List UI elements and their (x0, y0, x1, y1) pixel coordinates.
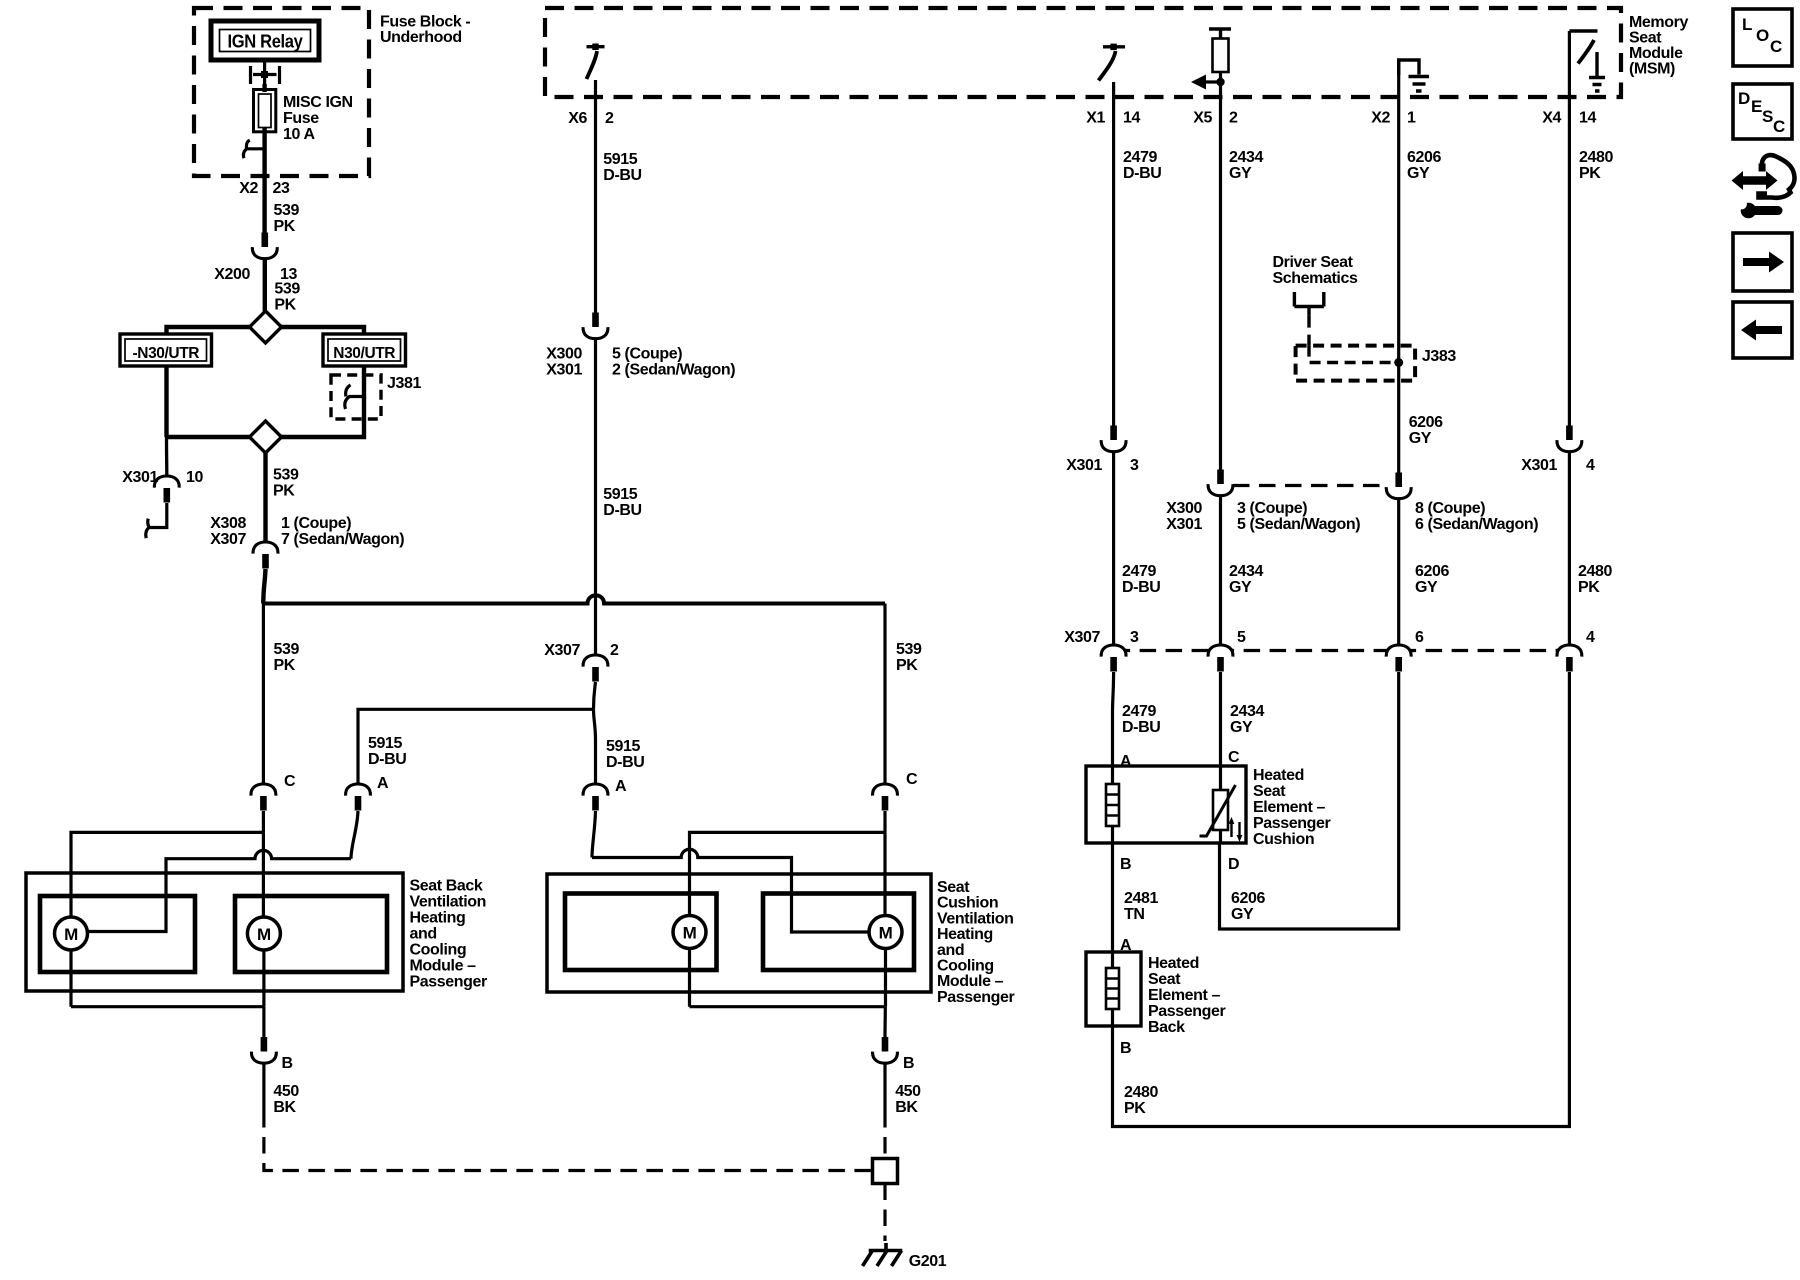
svg-text:X4: X4 (1542, 110, 1561, 127)
svg-text:BK: BK (895, 1099, 918, 1116)
svg-text:Module: Module (1629, 45, 1683, 62)
wire 2480 PK return (1113, 672, 1570, 1127)
wire X1-14 2479 D-BU (1112, 82, 1115, 427)
right module inner box 2 (763, 894, 914, 971)
svg-text:B: B (282, 1055, 293, 1072)
wire to X301-10 (165, 437, 169, 476)
svg-text:2 (Sedan/Wagon): 2 (Sedan/Wagon) (612, 362, 735, 379)
wire through back element (1111, 952, 1114, 1026)
svg-text:M: M (683, 924, 697, 943)
connector X300/X301 pin 8/6 (1386, 473, 1411, 499)
svg-text:BK: BK (273, 1099, 296, 1116)
svg-text:Passenger: Passenger (1253, 815, 1331, 832)
svg-text:3 (Coupe): 3 (Coupe) (1237, 500, 1307, 517)
wire X6-2 5915 D-BU (594, 80, 597, 314)
wire 450 BK (262, 1064, 265, 1111)
svg-text:PK: PK (274, 297, 296, 314)
motor M right (247, 917, 280, 950)
svg-text:Seat: Seat (937, 879, 970, 896)
pin labels B D (1120, 856, 1239, 873)
motor M left (55, 917, 88, 950)
Driver Seat Schematics reference (1273, 254, 1358, 287)
svg-text:D: D (1738, 89, 1750, 108)
svg-text:6206: 6206 (1407, 149, 1441, 166)
wire 2434 GY mid (1219, 497, 1222, 646)
svg-text:GY: GY (1409, 430, 1432, 447)
wire N30/UTR down through J381 (282, 366, 365, 437)
wire -N30/UTR down (164, 366, 168, 437)
wire to N30/UTR (282, 327, 365, 334)
wire X4-14 2480 PK (1568, 31, 1571, 427)
svg-text:Element –: Element – (1148, 987, 1220, 1004)
svg-text:J381: J381 (387, 375, 421, 392)
MSM switch at X6 (587, 45, 605, 48)
svg-text:TN: TN (1124, 906, 1145, 923)
svg-text:10: 10 (186, 469, 203, 486)
wire fuse through switch (262, 84, 266, 176)
heated seat element passenger cushion box (1086, 766, 1246, 843)
heater element bar (back) (1106, 968, 1119, 1009)
motor M left (cushion) (673, 916, 706, 949)
svg-text:Fuse Block -: Fuse Block - (380, 14, 470, 31)
svg-text:2434: 2434 (1229, 149, 1263, 166)
connector A right module (583, 784, 608, 811)
label MISC IGN Fuse 10 A (283, 94, 353, 143)
svg-text:3: 3 (1130, 629, 1139, 646)
svg-text:S: S (1762, 107, 1773, 126)
wire A into module (351, 811, 358, 859)
wire 2434 GY to element C (1219, 672, 1222, 766)
svg-text:10 A: 10 A (283, 126, 315, 143)
label Memory Seat Module (MSM) (1629, 14, 1688, 78)
wire C down into module (883, 811, 886, 832)
wire to -N30/UTR (167, 327, 250, 334)
dashed link X300/X301 row (1233, 484, 1386, 487)
wire C to right motor (883, 832, 886, 915)
svg-text:O: O (1756, 26, 1769, 45)
svg-text:X301: X301 (122, 469, 158, 486)
svg-text:X301: X301 (1066, 457, 1102, 474)
svg-text:GY: GY (1229, 579, 1252, 596)
connector X300/X301 pin 3/5 (1208, 470, 1233, 496)
svg-text:D-BU: D-BU (368, 751, 406, 768)
icon LOC box (1733, 9, 1792, 66)
wire diamond to -N30 branch (167, 435, 250, 439)
fuse holder clips (253, 73, 277, 76)
memory seat module dashed box (545, 8, 1621, 97)
svg-text:2479: 2479 (1123, 149, 1157, 166)
svg-text:C: C (1228, 749, 1240, 766)
svg-text:Ventilation: Ventilation (937, 910, 1014, 927)
left module outer box (26, 873, 403, 991)
svg-text:6: 6 (1415, 629, 1424, 646)
svg-text:X301: X301 (1521, 457, 1557, 474)
svg-text:M: M (64, 925, 78, 944)
svg-text:1: 1 (1407, 110, 1416, 127)
connector X301 pin 4 (1557, 426, 1582, 452)
connector X307 pin 6 (1386, 645, 1411, 672)
svg-text:IGN Relay: IGN Relay (228, 31, 304, 52)
svg-text:Heating: Heating (410, 910, 466, 927)
svg-text:5 (Sedan/Wagon): 5 (Sedan/Wagon) (1237, 516, 1360, 533)
wire 539 PK horizontal distribution with hop over X6 wire (263, 595, 885, 603)
MSM ground at X2 (1399, 60, 1429, 91)
connector B left module (251, 1037, 276, 1063)
wire 5915 down to right module A (594, 709, 596, 784)
jumper J381 dashed box (331, 375, 381, 419)
svg-text:D-BU: D-BU (1122, 579, 1160, 596)
connector X300/X301 pin 5/2 (583, 313, 608, 339)
wire 5915 to junction (594, 682, 596, 709)
dashed ground wire right (883, 1111, 886, 1159)
thermistor (cushion) (1213, 790, 1228, 830)
wire B down (262, 1007, 265, 1038)
svg-text:Cooling: Cooling (937, 958, 994, 975)
svg-text:PK: PK (896, 657, 918, 674)
wire 539 PK (263, 260, 267, 313)
svg-text:2434: 2434 (1230, 703, 1264, 720)
wire 539 PK below S2 (263, 453, 267, 542)
motor M right (cushion) (869, 916, 902, 949)
svg-text:M: M (879, 924, 893, 943)
svg-text:GY: GY (1407, 165, 1430, 182)
svg-text:MISC IGN: MISC IGN (283, 94, 353, 111)
label Heated Seat Element Passenger Cushion (1253, 767, 1331, 848)
svg-text:D-BU: D-BU (1122, 719, 1160, 736)
icon arrow left box (1733, 302, 1792, 358)
svg-text:8 (Coupe): 8 (Coupe) (1415, 500, 1485, 517)
svg-text:Underhood: Underhood (380, 29, 462, 46)
svg-text:5915: 5915 (603, 151, 637, 168)
svg-text:2480: 2480 (1124, 1084, 1158, 1101)
svg-text:Schematics: Schematics (1273, 270, 1358, 287)
pin label B (back) (1120, 1040, 1131, 1057)
MSM driver output at X5 (1209, 29, 1231, 39)
svg-text:2: 2 (1229, 110, 1238, 127)
svg-text:A: A (377, 775, 389, 792)
svg-text:Memory: Memory (1629, 14, 1688, 31)
svg-text:X2: X2 (239, 180, 258, 197)
svg-text:X2: X2 (1371, 110, 1390, 127)
node -N30/UTR box (120, 334, 212, 366)
svg-text:PK: PK (274, 657, 296, 674)
svg-text:B: B (1120, 1040, 1131, 1057)
svg-text:C: C (284, 773, 296, 790)
svg-text:5915: 5915 (606, 738, 640, 755)
svg-text:Seat Back: Seat Back (410, 878, 483, 895)
svg-text:PK: PK (273, 483, 295, 500)
svg-text:3: 3 (1130, 457, 1139, 474)
svg-text:G201: G201 (909, 1253, 947, 1270)
svg-text:Passenger: Passenger (1148, 1003, 1226, 1020)
svg-text:14: 14 (1579, 110, 1596, 127)
svg-text:539: 539 (274, 281, 300, 298)
svg-text:14: 14 (1123, 110, 1140, 127)
svg-text:2481: 2481 (1124, 890, 1158, 907)
svg-text:23: 23 (273, 180, 290, 197)
svg-text:D-BU: D-BU (603, 167, 641, 184)
connector C left module (251, 784, 276, 811)
label 6206 GY below J383 (1409, 414, 1443, 447)
wire A into right module (592, 811, 596, 858)
wire motors to B junction (cushion) (690, 949, 886, 1007)
svg-text:4: 4 (1586, 629, 1595, 646)
svg-text:450: 450 (895, 1083, 921, 1100)
svg-text:Ventilation: Ventilation (410, 894, 487, 911)
label Seat Cushion module (937, 879, 1015, 1006)
svg-text:Seat: Seat (1148, 971, 1181, 988)
wire 450 BK right (883, 1064, 886, 1111)
connector B right module (873, 1037, 898, 1063)
label Heated Seat Element Passenger Back (1148, 955, 1226, 1036)
svg-text:X307: X307 (210, 531, 246, 548)
wire motors to B junction (71, 950, 264, 1007)
svg-text:6206: 6206 (1415, 563, 1449, 580)
node N30/UTR box (323, 334, 406, 366)
connector X307 pin 4 (1557, 645, 1582, 672)
splice diamond S2 (250, 421, 282, 453)
svg-text:GY: GY (1415, 579, 1438, 596)
J381 internal terminal symbol (345, 385, 364, 409)
svg-text:A: A (615, 778, 627, 795)
svg-text:C: C (1770, 37, 1782, 56)
svg-text:Back: Back (1148, 1019, 1185, 1036)
fuse block dashed box (194, 8, 369, 176)
svg-text:Module –: Module – (937, 973, 1004, 990)
fuse F: MISC IGN Fuse 10A body (254, 90, 276, 132)
wire X5-2 2434 GY (1219, 82, 1222, 471)
label X2 23 (239, 180, 290, 197)
svg-text:PK: PK (274, 218, 296, 235)
svg-text:(MSM): (MSM) (1629, 61, 1675, 78)
svg-text:B: B (903, 1055, 914, 1072)
svg-text:D-BU: D-BU (606, 754, 644, 771)
MSM switch at X1 (1103, 45, 1125, 48)
svg-text:7 (Sedan/Wagon): 7 (Sedan/Wagon) (281, 531, 404, 548)
svg-text:539: 539 (274, 202, 300, 219)
svg-text:E: E (1751, 97, 1762, 116)
connector X307 pin 2 (583, 655, 608, 682)
svg-text:X307: X307 (1064, 629, 1100, 646)
dashed bus X307 row (1114, 649, 1570, 652)
svg-text:X5: X5 (1193, 110, 1212, 127)
svg-text:-N30/UTR: -N30/UTR (133, 345, 200, 362)
svg-text:X200: X200 (214, 266, 250, 283)
wire 5915 D-BU down (594, 340, 597, 656)
left module inner box 1 (40, 896, 195, 972)
wire 5915 branch to left module A (358, 709, 594, 784)
svg-text:6206: 6206 (1231, 890, 1265, 907)
svg-text:Heating: Heating (937, 926, 993, 943)
connector X301 pin 3 (1101, 426, 1126, 452)
J383 internal dashed link (1309, 346, 1394, 363)
svg-text:1 (Coupe): 1 (Coupe) (281, 515, 351, 532)
svg-text:N30/UTR: N30/UTR (333, 345, 395, 362)
unterminated lead below X301-10 (146, 503, 167, 538)
svg-text:GY: GY (1230, 719, 1253, 736)
svg-text:PK: PK (1124, 1100, 1146, 1117)
wire C branch to left motor (690, 832, 886, 915)
wire 539 PK (262, 176, 266, 234)
wire 2480 PK mid (1568, 453, 1571, 646)
svg-text:450: 450 (273, 1083, 299, 1100)
wire 2479 D-BU to element A (1113, 672, 1114, 766)
left module inner box 2 (235, 896, 387, 972)
svg-text:X300: X300 (1166, 500, 1202, 517)
svg-text:C: C (1773, 117, 1785, 136)
svg-text:M: M (257, 925, 271, 944)
svg-text:PK: PK (1579, 165, 1601, 182)
svg-text:5915: 5915 (368, 735, 402, 752)
svg-text:Element –: Element – (1253, 799, 1325, 816)
svg-text:L: L (1742, 15, 1752, 34)
svg-text:GY: GY (1231, 906, 1254, 923)
svg-text:2479: 2479 (1122, 703, 1156, 720)
svg-text:and: and (410, 926, 437, 943)
pin label A (back) (1120, 937, 1132, 954)
svg-text:X301: X301 (1166, 516, 1202, 533)
MSM switch+ground at X4 (1569, 29, 1597, 32)
wire B down (cushion) (883, 1007, 886, 1038)
svg-text:2: 2 (610, 642, 619, 659)
svg-text:539: 539 (274, 641, 300, 658)
svg-text:Passenger: Passenger (937, 989, 1015, 1006)
connector X200 pin 13 (252, 233, 277, 259)
icon DESC box (1733, 84, 1792, 139)
svg-text:D-BU: D-BU (1123, 165, 1161, 182)
svg-text:X1: X1 (1086, 110, 1105, 127)
connector X307 pin 3 (1101, 645, 1126, 672)
icon arrow right box (1733, 233, 1792, 291)
wire A horizontal with hop over M1 wire (592, 849, 869, 932)
wire 6206 GY from D to X2 column (1220, 672, 1399, 929)
relay K: IGN Relay box (211, 21, 319, 60)
splice box S (873, 1159, 898, 1184)
wire A horizontal with hop over C wire (88, 850, 352, 931)
svg-text:2480: 2480 (1579, 149, 1613, 166)
wire 539 PK down to left module C (262, 604, 265, 785)
icon two-way arrow with wrench (1742, 176, 1767, 185)
connector X301 pin 10 (154, 476, 179, 503)
wire C down into module (262, 811, 265, 832)
label Seat Back module (410, 878, 488, 991)
svg-text:J383: J383 (1422, 348, 1456, 365)
svg-text:6 (Sedan/Wagon): 6 (Sedan/Wagon) (1415, 516, 1538, 533)
connector X307 pin 5 (1208, 645, 1233, 672)
wire 2481 TN (1111, 843, 1114, 952)
dashed wire to G201 (883, 1184, 886, 1242)
svg-text:Cushion: Cushion (937, 895, 998, 912)
junction dot J383 (1394, 358, 1403, 367)
svg-text:Passenger: Passenger (410, 974, 488, 991)
wire C branch to left motor (71, 832, 263, 917)
svg-text:C: C (906, 771, 918, 788)
svg-text:D-BU: D-BU (603, 502, 641, 519)
splice diamond S1 (250, 311, 282, 343)
svg-text:Fuse: Fuse (283, 110, 319, 127)
svg-text:6206: 6206 (1409, 414, 1443, 431)
svg-text:5: 5 (1237, 629, 1246, 646)
wire through element (1113, 766, 1221, 843)
svg-text:2: 2 (605, 110, 614, 127)
svg-text:Module –: Module – (410, 958, 477, 975)
wire down to junction (263, 569, 265, 604)
wire relay to fuse clip (263, 60, 266, 90)
connector C right module (873, 784, 898, 811)
svg-text:5915: 5915 (603, 486, 637, 503)
dashed ground wire left (264, 1111, 873, 1171)
connector A left module (346, 784, 371, 811)
label Fuse Block - Underhood (380, 14, 470, 47)
right module outer box (547, 874, 931, 992)
svg-text:5 (Coupe): 5 (Coupe) (612, 346, 682, 363)
wire 6206 GY mid (1397, 500, 1400, 646)
svg-text:B: B (1120, 856, 1131, 873)
svg-text:GY: GY (1229, 165, 1252, 182)
ground G201 (863, 1243, 903, 1266)
svg-text:Heated: Heated (1148, 955, 1199, 972)
svg-text:Cooling: Cooling (410, 942, 467, 959)
pin labels A C (1120, 749, 1240, 770)
svg-text:Seat: Seat (1253, 783, 1286, 800)
svg-text:X6: X6 (568, 110, 587, 127)
wire X2-1 6206 GY (1397, 60, 1400, 474)
svg-text:X300: X300 (546, 346, 582, 363)
wire 2479 D-BU mid (1112, 453, 1115, 646)
heated seat element passenger back box (1086, 952, 1141, 1026)
svg-text:Driver Seat: Driver Seat (1273, 254, 1354, 271)
connector X308/X307 pin 1/7 (253, 542, 278, 569)
heater element bar (cushion) (1106, 784, 1119, 826)
svg-text:PK: PK (1578, 579, 1600, 596)
svg-text:2434: 2434 (1229, 563, 1263, 580)
svg-text:539: 539 (896, 641, 922, 658)
svg-text:4: 4 (1586, 457, 1595, 474)
svg-text:2480: 2480 (1578, 563, 1612, 580)
wire C down to right motor with pass-through (262, 832, 265, 917)
svg-text:and: and (937, 942, 964, 959)
svg-text:X308: X308 (210, 515, 246, 532)
svg-text:X307: X307 (544, 642, 580, 659)
right module inner box 1 (565, 894, 717, 971)
switch hook at fuse output (243, 140, 264, 158)
svg-text:X301: X301 (546, 362, 582, 379)
svg-text:539: 539 (273, 467, 299, 484)
svg-text:Seat: Seat (1629, 30, 1662, 47)
svg-text:Cushion: Cushion (1253, 831, 1314, 848)
wire 539 PK down to right module C (883, 604, 886, 785)
svg-text:D: D (1228, 856, 1239, 873)
svg-text:2479: 2479 (1122, 563, 1156, 580)
svg-text:Heated: Heated (1253, 767, 1304, 784)
jumper J383 dashed box (1296, 346, 1416, 381)
